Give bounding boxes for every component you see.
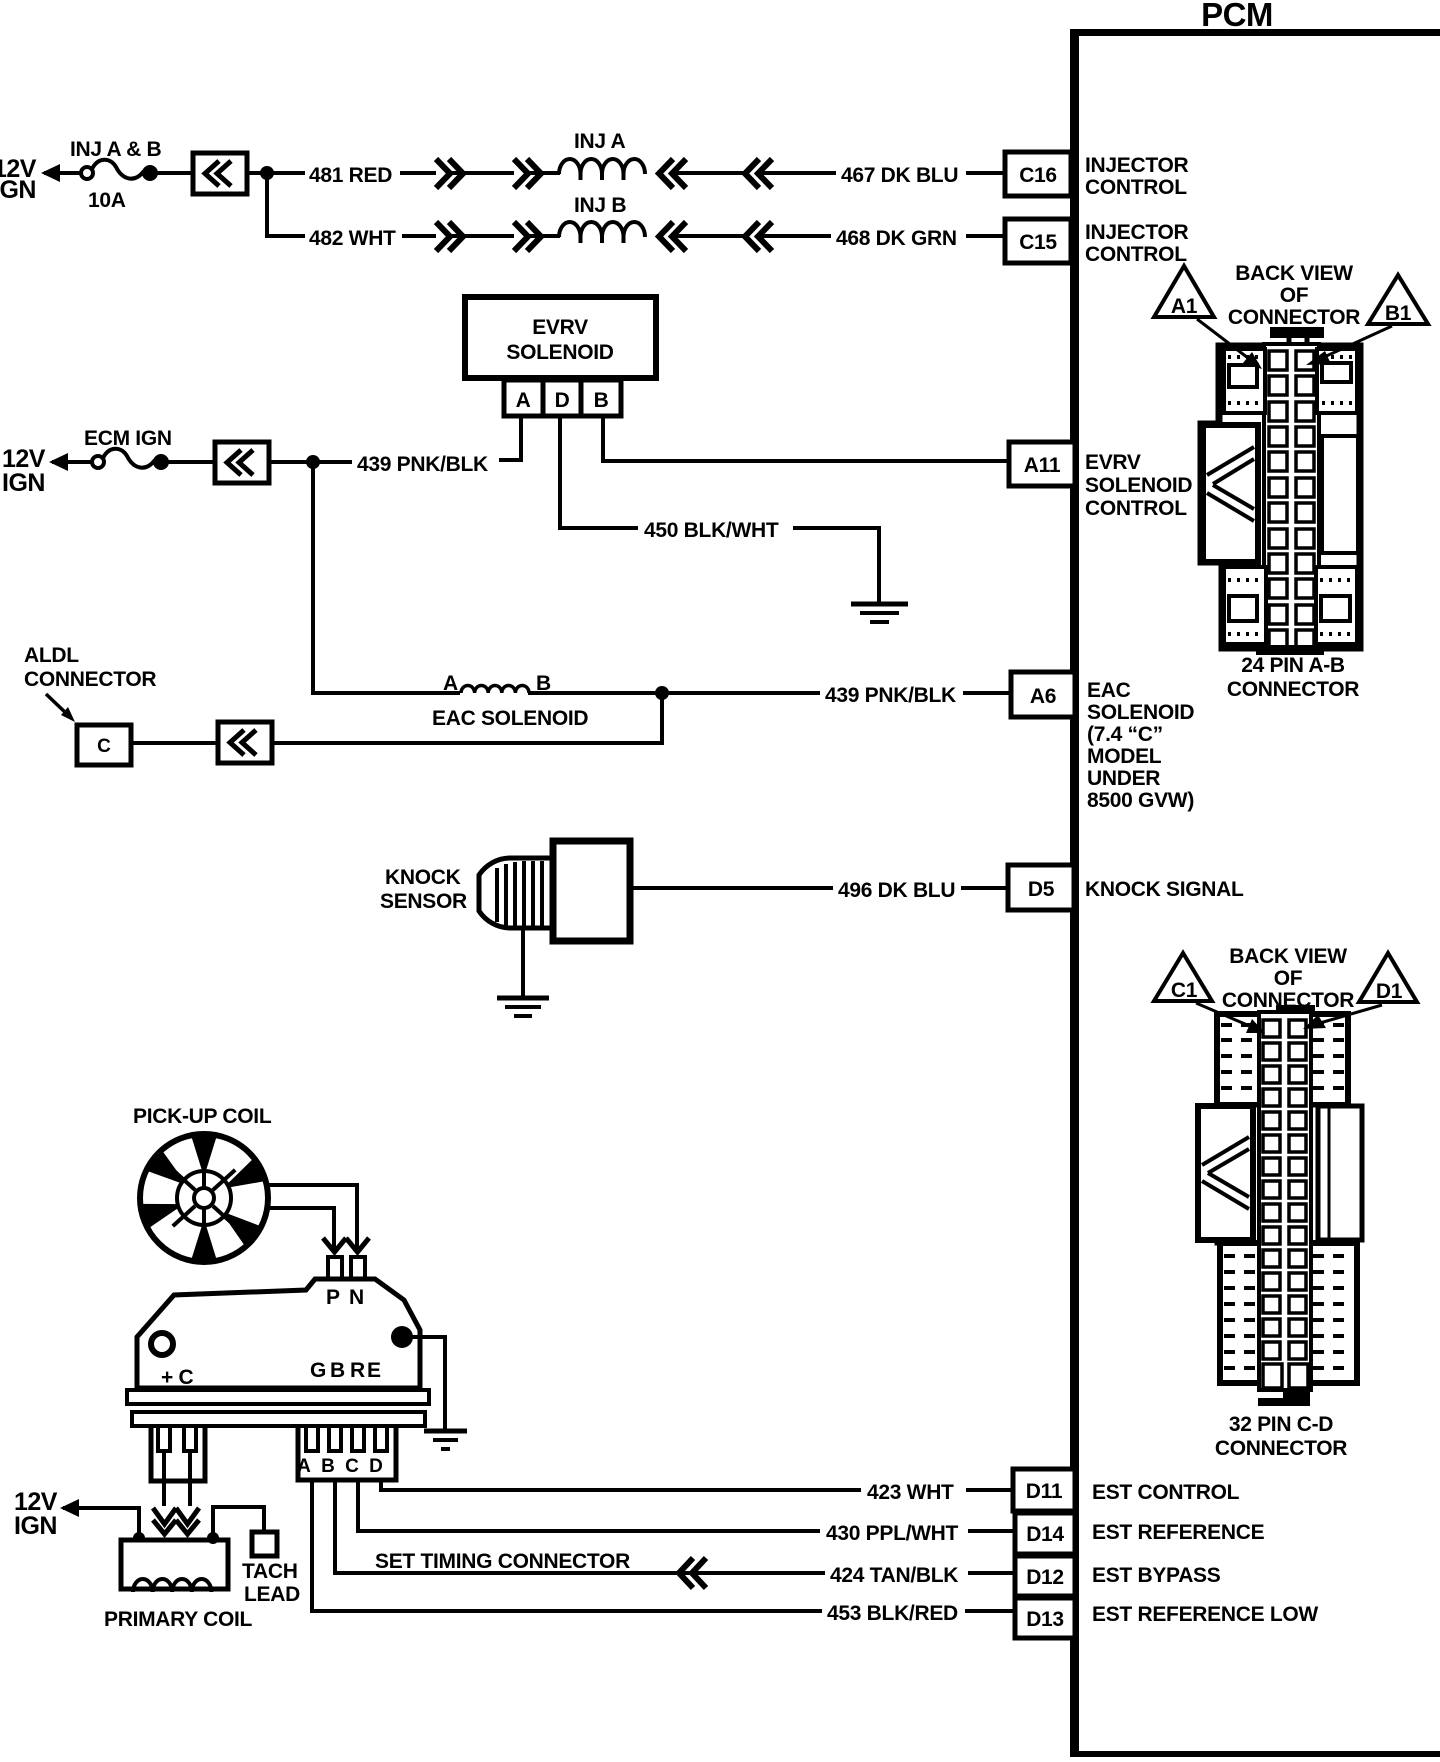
pin squares column A [1269, 351, 1287, 647]
svg-text:OF: OF [1280, 284, 1309, 307]
wire to 468 label [758, 234, 831, 238]
PCM boundary vertical wire [1070, 29, 1079, 1756]
wire EVRV pin A down to 439 feed [499, 418, 521, 460]
pin A box (EVRV) [504, 380, 543, 416]
module pin N [351, 1257, 365, 1283]
svg-text:C: C [345, 1456, 359, 1477]
svg-text:C: C [97, 736, 111, 757]
svg-text:KNOCK SIGNAL: KNOCK SIGNAL [1085, 878, 1244, 901]
wire connector to ALDL C box [131, 741, 218, 745]
pin D12 box [1015, 1556, 1075, 1596]
svg-text:D: D [555, 389, 570, 412]
svg-text:496 DK BLU: 496 DK BLU [838, 879, 955, 902]
pin D5 box [1008, 865, 1074, 910]
junction node 439 splice [306, 455, 320, 469]
junction node splice [260, 166, 274, 180]
wire fuse to connector [156, 171, 191, 175]
wire label to C15 [966, 234, 1005, 238]
right latch slot [1322, 436, 1358, 553]
wire [528, 234, 560, 238]
svg-text:CONNECTOR: CONNECTOR [24, 668, 156, 691]
wire pick-up coil to pin P [268, 1185, 357, 1250]
svg-text:D5: D5 [1028, 878, 1055, 901]
ground (ignition module) [424, 1431, 467, 1449]
svg-text:INJ A & B: INJ A & B [70, 138, 162, 161]
connector bottom tab [1256, 645, 1324, 655]
svg-text:INJECTOR: INJECTOR [1085, 221, 1189, 244]
module mounting plate upper [127, 1390, 429, 1404]
svg-text:EST REFERENCE LOW: EST REFERENCE LOW [1092, 1603, 1318, 1626]
primary coil winding [133, 1579, 211, 1592]
svg-text:ECM IGN: ECM IGN [84, 427, 172, 450]
callout triangle D1 [1359, 953, 1417, 1003]
pin squares column B [1296, 351, 1314, 647]
arrow chevrons into module pins [323, 1238, 369, 1252]
PCM boundary top wire [1071, 29, 1440, 36]
svg-text:R: R [350, 1359, 365, 1382]
pin D14 box [1015, 1513, 1075, 1554]
upper-right cavity block [1317, 349, 1357, 413]
connector top key tab [1276, 1005, 1315, 1014]
svg-text:B: B [594, 389, 609, 412]
PCM boundary bottom wire [1070, 1751, 1440, 1757]
svg-text:EST BYPASS: EST BYPASS [1092, 1564, 1221, 1587]
wire 482 WHT segment [402, 234, 436, 238]
svg-text:8500 GVW): 8500 GVW) [1087, 789, 1194, 812]
ALDL leader arrow [46, 694, 68, 715]
svg-text:UNDER: UNDER [1087, 767, 1160, 790]
callout triangle A1 [1154, 266, 1214, 318]
left latch block with wedge [1203, 425, 1258, 562]
svg-text:D14: D14 [1026, 1523, 1064, 1546]
svg-text:430 PPL/WHT: 430 PPL/WHT [826, 1522, 959, 1545]
svg-text:A6: A6 [1030, 685, 1056, 708]
wire 481 RED segment [400, 171, 436, 175]
svg-text:CONNECTOR: CONNECTOR [1227, 678, 1359, 701]
inline connector symbol (ALDL branch) [218, 722, 272, 763]
wire EST A to D13 (453 BLK/RED) [312, 1480, 822, 1611]
wire label to D11 [966, 1488, 1011, 1492]
wire EAC junction down to ALDL connector row [272, 693, 662, 743]
svg-text:MODEL: MODEL [1087, 745, 1162, 768]
upper shell section [1217, 1014, 1348, 1105]
pin C16 box [1005, 152, 1071, 196]
pin D box (EVRV) [543, 380, 581, 416]
arrow right double-chevron 1 (row 2) [436, 222, 463, 251]
svg-text:TACH: TACH [242, 1560, 298, 1583]
svg-text:453 BLK/RED: 453 BLK/RED [827, 1602, 958, 1625]
wire EST B to D12 (424 TAN/BLK) [335, 1480, 825, 1573]
svg-text:B1: B1 [1385, 302, 1412, 325]
center pin channel [1259, 1012, 1311, 1390]
pin B box (EVRV) [581, 380, 621, 416]
module terminal dot [391, 1326, 413, 1348]
svg-text:A: A [443, 672, 458, 695]
leader arrow A1 to pin A1 [1197, 319, 1252, 361]
svg-text:A: A [516, 389, 531, 412]
svg-text:424 TAN/BLK: 424 TAN/BLK [830, 1564, 958, 1587]
module pin P [328, 1257, 342, 1283]
svg-text:B: B [330, 1359, 345, 1382]
left pin shell (coil terminals) [151, 1426, 205, 1481]
wire knock sensor to label [633, 886, 833, 890]
svg-text:N: N [349, 1286, 364, 1309]
svg-text:C1: C1 [1171, 979, 1198, 1002]
svg-text:IGN: IGN [2, 469, 45, 497]
junction node EAC splice [655, 686, 669, 700]
arrow left double-chevron 1 (row 2) [659, 222, 686, 251]
svg-text:EAC SOLENOID: EAC SOLENOID [432, 707, 588, 730]
wire label to C16 [966, 171, 1005, 175]
pin A11 box [1009, 442, 1075, 486]
wire 450 to ground [793, 528, 879, 603]
pin squares column D [1289, 1020, 1308, 1388]
wire label to D13 [965, 1609, 1015, 1613]
right pin shell (EST terminals) [298, 1426, 396, 1480]
callout triangle B1 [1368, 275, 1428, 325]
svg-text:INJ A: INJ A [574, 130, 626, 153]
svg-text:C15: C15 [1019, 231, 1057, 254]
svg-text:PICK-UP COIL: PICK-UP COIL [133, 1105, 272, 1128]
wire EVRV pin D down to 450 BLK/WHT [560, 418, 638, 528]
EVRV solenoid box [465, 297, 656, 378]
svg-text:IGN: IGN [0, 176, 36, 204]
junction node (coil + feed) [133, 1532, 145, 1544]
wire pick-up coil to pin N [266, 1208, 334, 1250]
svg-text:SOLENOID: SOLENOID [1085, 474, 1192, 497]
left latch block with wedge [1198, 1106, 1253, 1240]
leader arrow B1 to pin B1 [1322, 326, 1392, 358]
junction node (tach tap) [207, 1532, 219, 1544]
wire EAC coil to junction [528, 691, 820, 695]
svg-text:423 WHT: 423 WHT [867, 1481, 954, 1504]
svg-text:INJECTOR: INJECTOR [1085, 154, 1189, 177]
svg-text:BACK VIEW: BACK VIEW [1229, 945, 1347, 968]
wire [450, 171, 514, 175]
connector center pin channel [1264, 344, 1319, 650]
svg-text:INJ B: INJ B [574, 194, 626, 217]
right latch block [1318, 1106, 1362, 1240]
wire junction down to row 2 [267, 173, 305, 236]
wire connector to junction [247, 171, 305, 175]
ground (EVRV 450 BLK/WHT) [851, 604, 908, 622]
svg-text:450 BLK/WHT: 450 BLK/WHT [644, 519, 779, 542]
svg-text:IGN: IGN [14, 1512, 57, 1540]
knock sensor symbol [479, 841, 630, 941]
pick-up coil symbol [140, 1134, 268, 1262]
pin A6 box [1011, 672, 1075, 717]
svg-text:24 PIN A-B: 24 PIN A-B [1241, 654, 1345, 677]
svg-text:A1: A1 [1171, 295, 1198, 318]
wire connector to junction [269, 460, 352, 464]
wire label to A6 [963, 691, 1011, 695]
arrow chevrons into primary coil [153, 1508, 199, 1534]
arrow left double-chevron (set timing) [679, 1558, 706, 1588]
ignition module body [137, 1279, 420, 1388]
inline connector symbol (12V feed) [193, 153, 247, 194]
svg-text:OF: OF [1274, 967, 1303, 990]
svg-text:SOLENOID: SOLENOID [506, 341, 613, 364]
svg-text:439 PNK/BLK: 439 PNK/BLK [357, 453, 488, 476]
arrow left double-chevron 1 (row 1) [659, 159, 686, 188]
svg-text:CONTROL: CONTROL [1085, 243, 1187, 266]
arrow right double-chevron 2 (row 2) [514, 222, 541, 251]
wire [672, 234, 746, 238]
svg-text:C16: C16 [1019, 164, 1057, 187]
svg-text:CONNECTOR: CONNECTOR [1228, 306, 1360, 329]
svg-text:CONTROL: CONTROL [1085, 497, 1187, 520]
svg-text:D12: D12 [1026, 1566, 1064, 1589]
wire tach lead to coil [213, 1507, 264, 1536]
svg-text:EVRV: EVRV [532, 316, 588, 339]
wire [672, 171, 746, 175]
middle shell section [1217, 1105, 1348, 1243]
pin squares column C [1263, 1020, 1282, 1388]
svg-text:LEAD: LEAD [244, 1583, 300, 1606]
svg-text:EAC: EAC [1087, 679, 1131, 702]
wire label to D12 [968, 1571, 1015, 1575]
pin D13 box [1015, 1598, 1075, 1638]
svg-text:EST CONTROL: EST CONTROL [1092, 1481, 1240, 1504]
wire label to D5 [961, 886, 1008, 890]
arrow left double-chevron 2 (row 1) [745, 159, 772, 188]
lower-right cavity block [1316, 567, 1357, 644]
wire to 467 label [758, 171, 836, 175]
wire arrow to ECM fuse [52, 460, 92, 464]
wire EST C to D14 (430 PPL/WHT) [358, 1480, 820, 1531]
wires module to primary coil [162, 1451, 166, 1506]
svg-text:+ C: + C [161, 1366, 193, 1389]
svg-text:D: D [369, 1456, 383, 1477]
wire 12V arrow to primary coil [63, 1508, 139, 1536]
coil terminal pins [158, 1426, 170, 1451]
EST pins A B C D [306, 1426, 318, 1451]
svg-text:A: A [297, 1456, 311, 1477]
wire EST D to D11 (423 WHT) [381, 1480, 861, 1490]
fuse ECM IGN [92, 449, 167, 468]
wire junction down to EAC row [313, 462, 460, 693]
svg-text:SENSOR: SENSOR [380, 890, 467, 913]
svg-text:P: P [326, 1286, 340, 1309]
tach lead terminal [252, 1532, 277, 1556]
wire [450, 234, 514, 238]
svg-text:439 PNK/BLK: 439 PNK/BLK [825, 684, 956, 707]
wire knock sensor to ground [521, 929, 525, 997]
inline connector symbol (ECM feed) [215, 442, 269, 483]
connector top key tab [1270, 327, 1324, 338]
upper-left cavity block [1224, 349, 1265, 413]
svg-text:468 DK GRN: 468 DK GRN [836, 227, 957, 250]
svg-text:(7.4 “C”: (7.4 “C” [1087, 723, 1163, 746]
arrow left double-chevron 2 (row 2) [745, 222, 772, 251]
wire EVRV pin B down and right to A11 [603, 418, 1009, 461]
wire label to D14 [968, 1529, 1015, 1533]
fuse INJ A & B 10A [81, 160, 156, 179]
arrow right double-chevron 1 (row 1) [436, 159, 463, 188]
wire 12V to fuse with arrow [44, 171, 82, 175]
svg-text:G: G [310, 1359, 326, 1382]
svg-text:E: E [367, 1359, 381, 1382]
svg-text:EVRV: EVRV [1085, 451, 1141, 474]
svg-text:SET TIMING CONNECTOR: SET TIMING CONNECTOR [375, 1550, 630, 1573]
svg-text:EST REFERENCE: EST REFERENCE [1092, 1521, 1265, 1544]
svg-text:CONTROL: CONTROL [1085, 176, 1187, 199]
svg-text:A11: A11 [1024, 454, 1061, 477]
wire module dot to ground [402, 1337, 445, 1430]
svg-text:D11: D11 [1026, 1480, 1063, 1503]
wire fuse to connector [167, 460, 213, 464]
callout triangle C1 [1154, 953, 1212, 1002]
svg-text:467 DK BLU: 467 DK BLU [841, 164, 958, 187]
leader arrow D1 to pin D1 [1320, 1005, 1382, 1023]
arrow right double-chevron 2 (row 1) [514, 159, 541, 188]
module mounting plate lower [132, 1412, 425, 1426]
svg-text:D13: D13 [1026, 1608, 1064, 1631]
svg-text:KNOCK: KNOCK [385, 866, 461, 889]
svg-text:482 WHT: 482 WHT [309, 227, 396, 250]
pin D11 box [1013, 1469, 1075, 1511]
svg-text:SOLENOID: SOLENOID [1087, 701, 1194, 724]
svg-text:BACK VIEW: BACK VIEW [1235, 262, 1353, 285]
svg-text:PCM: PCM [1201, 0, 1273, 33]
32 pin connector body [1198, 1005, 1362, 1406]
ground (knock sensor) [497, 998, 549, 1016]
24 pin connector body [1201, 327, 1360, 655]
pin C15 box [1005, 219, 1071, 263]
connector bottom foot tab [1258, 1390, 1310, 1406]
ALDL pin C box [77, 725, 131, 765]
svg-text:481 RED: 481 RED [309, 164, 392, 187]
svg-text:PRIMARY COIL: PRIMARY COIL [104, 1608, 253, 1631]
svg-text:ALDL: ALDL [24, 644, 79, 667]
svg-text:10A: 10A [88, 189, 126, 212]
primary coil box [121, 1540, 228, 1589]
lower shell section [1220, 1243, 1357, 1383]
leader arrow C1 to pin C1 [1196, 1003, 1252, 1027]
wire [528, 171, 560, 175]
svg-text:D1: D1 [1376, 980, 1403, 1003]
svg-text:CONNECTOR: CONNECTOR [1215, 1437, 1347, 1460]
module screw hole [151, 1333, 173, 1355]
lower-left cavity block [1224, 567, 1266, 644]
svg-text:32 PIN C-D: 32 PIN C-D [1229, 1413, 1333, 1436]
svg-text:B: B [321, 1456, 335, 1477]
